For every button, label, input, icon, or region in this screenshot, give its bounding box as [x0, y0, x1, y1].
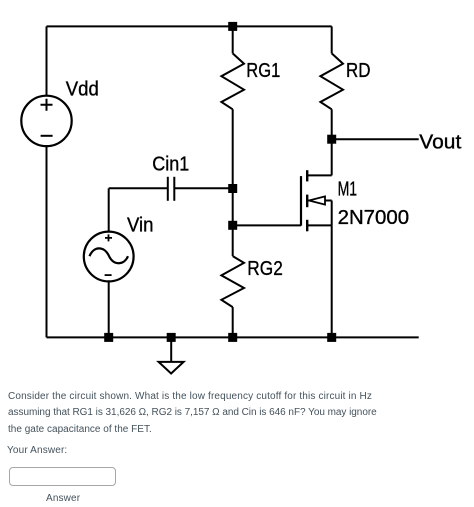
- transistor M1 mosfet: [301, 139, 332, 337]
- answer input box: [9, 467, 116, 486]
- svg-text:RG1: RG1: [246, 60, 280, 82]
- svg-text:Cin1: Cin1: [152, 154, 189, 176]
- svg-text:Vout: Vout: [419, 132, 461, 154]
- answer label: [46, 493, 80, 504]
- svg-text:M1: M1: [338, 178, 358, 200]
- svg-text:Vdd: Vdd: [66, 79, 99, 101]
- resistor RD: [320, 53, 343, 139]
- wire left rail top: [46, 26, 48, 95]
- junction bottom ground: [167, 333, 176, 342]
- svg-text:RG2: RG2: [247, 258, 282, 280]
- your answer label: [7, 445, 67, 456]
- wire Vout: [332, 138, 419, 140]
- junction gate wire: [228, 221, 237, 230]
- wire gate: [233, 224, 301, 226]
- wire RG1 to RG2: [232, 189, 234, 226]
- voltage source Vdd: [21, 96, 71, 146]
- resistor RG1: [221, 26, 244, 188]
- question text: [8, 389, 377, 438]
- junction bottom Vin: [104, 333, 113, 342]
- svg-text:2N7000: 2N7000: [338, 207, 410, 229]
- junction Vout: [327, 135, 336, 144]
- junction top RG1: [228, 22, 237, 31]
- wire left rail bottom: [46, 146, 48, 337]
- junction gate node: [228, 184, 237, 193]
- junction bottom RG2: [228, 333, 237, 342]
- svg-text:Vin: Vin: [127, 215, 154, 237]
- ground: [159, 337, 184, 373]
- wire top rail: [47, 25, 332, 27]
- svg-text:RD: RD: [346, 60, 371, 82]
- capacitor Cin1: [109, 177, 233, 201]
- resistor RG2: [221, 225, 244, 337]
- ac source Vin: [84, 188, 134, 337]
- wire RD top lead: [331, 26, 333, 53]
- wire bottom rail: [47, 336, 419, 338]
- junction bottom source: [327, 333, 336, 342]
